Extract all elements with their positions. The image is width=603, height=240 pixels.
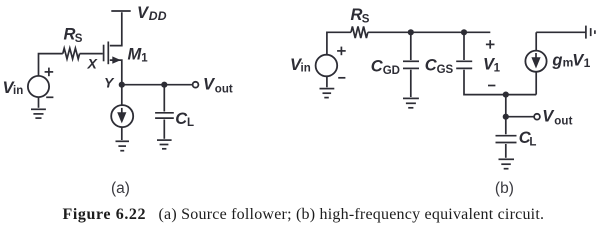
svg-text:Y: Y bbox=[104, 75, 115, 91]
svg-text:S: S bbox=[362, 13, 370, 25]
svg-text:GD: GD bbox=[383, 65, 400, 77]
capacitor CGS (b) bbox=[456, 61, 472, 68]
label Vout (b) bbox=[542, 107, 572, 127]
label CGD (b) bbox=[371, 57, 400, 77]
svg-text:1: 1 bbox=[141, 52, 148, 64]
plus polarity mark (b) bbox=[337, 47, 346, 56]
voltage source Vin (b) bbox=[316, 55, 338, 77]
wire source to ground (b) bbox=[326, 76, 328, 87]
wire CGS to bottom rail (b) bbox=[464, 70, 536, 95]
wire CL tap down (a) bbox=[163, 85, 165, 112]
resistor RS (a) bbox=[63, 48, 80, 59]
transistor M1 drain wire to VDD bbox=[110, 12, 122, 45]
AC ground symbol top right (b) bbox=[586, 26, 595, 39]
ground under CL (b) bbox=[499, 159, 515, 168]
wire source top to resistor (b) bbox=[327, 32, 351, 55]
node dot at CL tap (a) bbox=[161, 82, 167, 88]
wire CL to ground (a) bbox=[163, 120, 165, 139]
svg-text:g: g bbox=[551, 52, 562, 70]
svg-text:1: 1 bbox=[584, 56, 591, 70]
wire current source to ground (a) bbox=[121, 127, 123, 140]
wire down to CGS (b) bbox=[463, 32, 465, 60]
wire current source branch (b) bbox=[536, 32, 585, 94]
wire source top to corner (a) bbox=[39, 54, 63, 76]
svg-text:1: 1 bbox=[494, 63, 501, 75]
wire down to CL (b) bbox=[505, 117, 507, 135]
output terminal circle (a) bbox=[193, 82, 199, 88]
transistor M1 source wire with arrow bbox=[110, 56, 122, 84]
label Vin (a) bbox=[3, 79, 24, 97]
wire gate rail (b) bbox=[368, 31, 491, 33]
svg-text:L: L bbox=[529, 137, 536, 149]
label CL (b) bbox=[519, 129, 537, 148]
node dot CGD (b) bbox=[408, 29, 414, 35]
transistor M1 gate bar bbox=[103, 45, 105, 62]
svg-text:X: X bbox=[87, 56, 99, 72]
svg-text:out: out bbox=[215, 83, 233, 95]
wire source circle to ground (a) bbox=[38, 97, 40, 108]
label CGS (b) bbox=[425, 56, 454, 76]
label RS (b) bbox=[351, 6, 370, 25]
label gmV1 (b) bbox=[551, 52, 590, 70]
wire to output terminal (b) bbox=[506, 116, 534, 118]
ground under current source (a) bbox=[116, 141, 130, 150]
label V1 (b) bbox=[483, 56, 501, 75]
svg-text:GS: GS bbox=[437, 64, 454, 76]
figure caption bbox=[63, 206, 545, 223]
minus mark V1 (b) bbox=[488, 85, 495, 87]
wire output tap down (b) bbox=[505, 95, 507, 117]
svg-text:(a): (a) bbox=[111, 180, 130, 197]
node dot output tap (b) bbox=[503, 92, 509, 98]
dependent current source gmV1 (b) bbox=[525, 51, 546, 72]
node dot Vout junction (b) bbox=[503, 114, 509, 120]
wire resistor to gate (a) bbox=[80, 53, 103, 55]
VDD supply bar bbox=[111, 10, 130, 12]
node X label bbox=[87, 56, 99, 72]
svg-text:out: out bbox=[554, 115, 572, 127]
label (b) bbox=[495, 180, 514, 197]
wire down to CGD (b) bbox=[410, 32, 412, 60]
svg-text:L: L bbox=[187, 117, 194, 129]
svg-text:(b): (b) bbox=[495, 180, 514, 197]
svg-text:(a) Source follower; (b) high-: (a) Source follower; (b) high-frequency … bbox=[159, 206, 545, 223]
label Vout (a) bbox=[203, 75, 233, 95]
label Vin (b) bbox=[290, 56, 311, 75]
label (a) bbox=[111, 180, 130, 197]
svg-text:in: in bbox=[13, 85, 23, 97]
svg-text:in: in bbox=[301, 63, 311, 75]
capacitor CGD (b) bbox=[403, 61, 419, 68]
ground under CGD (b) bbox=[403, 98, 419, 107]
transistor M1 channel bar bbox=[107, 42, 109, 65]
resistor RS (b) bbox=[351, 26, 368, 38]
current source I1 (a) bbox=[111, 105, 133, 127]
wire Y to current source (a) bbox=[121, 87, 123, 106]
wire CGD to ground (b) bbox=[410, 70, 412, 97]
ground under CL (a) bbox=[157, 140, 172, 149]
wire Y to output terminal (a) bbox=[122, 84, 193, 86]
node dot CGS (b) bbox=[461, 29, 467, 35]
output terminal circle (b) bbox=[534, 114, 540, 120]
ground under Vin source (b) bbox=[320, 89, 335, 98]
wire CL to ground (b) bbox=[505, 144, 507, 158]
node Y label bbox=[104, 75, 115, 91]
minus polarity mark (b) bbox=[338, 77, 345, 79]
label VDD bbox=[137, 4, 167, 23]
node Y dot bbox=[119, 82, 125, 88]
label CL (a) bbox=[175, 110, 194, 129]
plus mark V1 (b) bbox=[486, 40, 495, 49]
svg-text:Figure 6.22: Figure 6.22 bbox=[63, 206, 147, 223]
plus polarity mark (a) bbox=[45, 68, 54, 77]
svg-text:S: S bbox=[75, 33, 83, 45]
voltage source Vin (a) bbox=[28, 76, 49, 97]
svg-text:R: R bbox=[64, 25, 76, 43]
ground under Vin source (a) bbox=[31, 109, 46, 118]
svg-text:R: R bbox=[351, 6, 363, 24]
capacitor CL (a) bbox=[155, 113, 174, 118]
svg-text:DD: DD bbox=[149, 9, 167, 23]
capacitor CL (b) bbox=[496, 136, 517, 143]
label RS (a) bbox=[64, 25, 83, 45]
label M1 bbox=[128, 46, 149, 65]
minus polarity mark (a) bbox=[46, 96, 53, 98]
